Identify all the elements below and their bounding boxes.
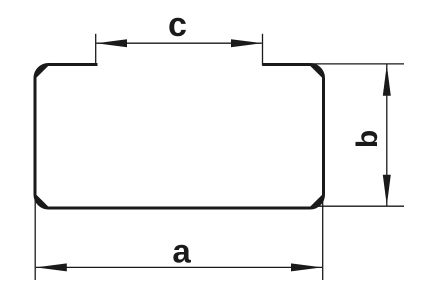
extension line b bottom xyxy=(316,205,404,207)
extension line a left xyxy=(34,198,36,281)
corner fillet bottom-left xyxy=(35,195,49,209)
arrowhead a left xyxy=(36,263,67,271)
extension line a right xyxy=(322,198,324,281)
dimension line a xyxy=(36,266,322,268)
svg-text:c: c xyxy=(168,6,187,44)
svg-text:b: b xyxy=(351,130,384,148)
dimension line b xyxy=(386,65,388,206)
extension line c left xyxy=(95,34,97,66)
corner fillet top-right xyxy=(310,65,324,79)
extension line c right xyxy=(262,34,264,66)
dimension line c xyxy=(96,42,262,44)
extension line b top xyxy=(311,63,404,65)
arrowhead c right xyxy=(231,39,262,47)
arrowhead c left xyxy=(96,39,127,47)
svg-text:a: a xyxy=(172,233,191,270)
arrowhead b bottom xyxy=(383,175,391,206)
arrowhead b top xyxy=(383,65,391,96)
arrowhead a right xyxy=(291,263,322,271)
profile outline (rounded rectangle with top slot gap) xyxy=(35,65,324,209)
corner fillet bottom-right xyxy=(310,195,324,209)
corner fillet top-left xyxy=(35,65,49,79)
